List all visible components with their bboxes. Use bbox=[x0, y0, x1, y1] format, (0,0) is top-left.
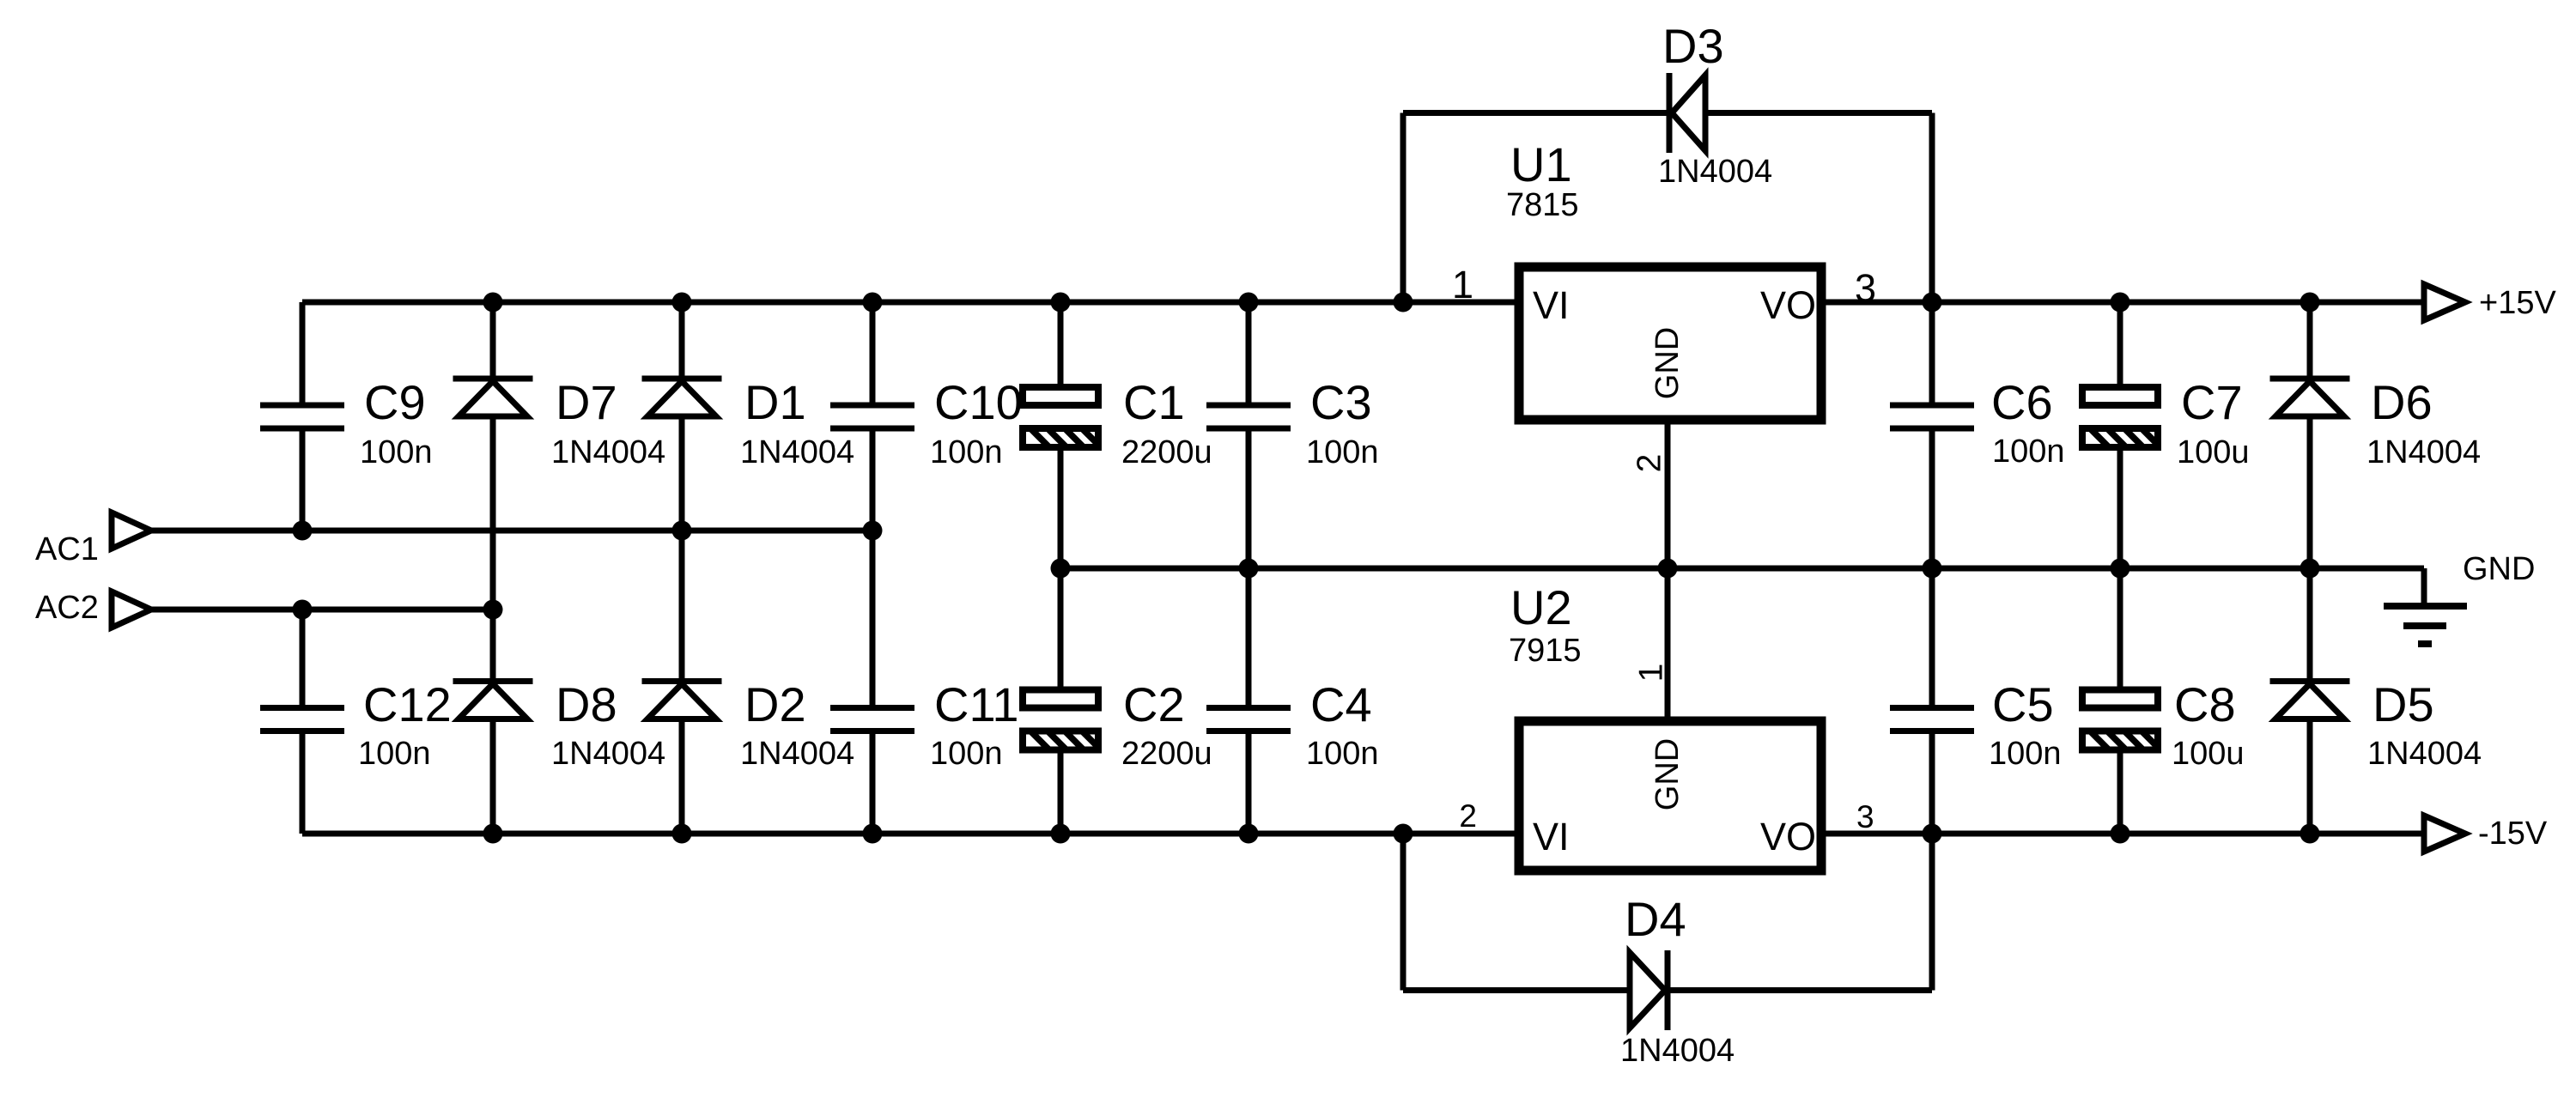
svg-text:D1: D1 bbox=[744, 375, 806, 429]
svg-text:1N4004: 1N4004 bbox=[551, 736, 665, 772]
diode D7 bbox=[453, 375, 666, 470]
svg-text:1N4004: 1N4004 bbox=[551, 434, 665, 470]
wire GND drop to earth symbol bbox=[2421, 568, 2427, 606]
svg-text:3: 3 bbox=[1856, 799, 1874, 834]
svg-text:C2: C2 bbox=[1123, 677, 1185, 731]
svg-text:1N4004: 1N4004 bbox=[740, 434, 854, 470]
svg-text:D4: D4 bbox=[1625, 892, 1686, 946]
wire column x=1454 (C3/C4 legs) bbox=[1246, 302, 1252, 834]
capacitor C5 bbox=[1890, 677, 2062, 772]
wire D4 bypass loop (U2 VI-VO) bbox=[1403, 834, 1932, 991]
diode D1 bbox=[642, 375, 855, 470]
svg-text:VO: VO bbox=[1760, 815, 1816, 858]
svg-text:C7: C7 bbox=[2181, 375, 2243, 429]
wire column x=1235 (C1/C2 legs) bbox=[1058, 302, 1064, 834]
capacitor C3 bbox=[1206, 375, 1379, 470]
svg-text:C10: C10 bbox=[934, 375, 1023, 429]
wire column x=2250 (C6/C5 legs) bbox=[1929, 302, 1935, 834]
wire column x=2690 (D6/D5 legs) bbox=[2307, 302, 2313, 834]
svg-text:100n: 100n bbox=[930, 736, 1003, 772]
svg-text:GND: GND bbox=[1649, 327, 1686, 399]
svg-text:C6: C6 bbox=[1991, 375, 2053, 429]
capacitor C2 (electrolytic) bbox=[1019, 677, 1212, 772]
capacitor C1 (electrolytic) bbox=[1019, 375, 1212, 470]
capacitor C4 bbox=[1206, 677, 1379, 772]
diode D6 bbox=[2270, 375, 2482, 470]
net -15V output flag bbox=[2424, 816, 2548, 852]
svg-text:1N4004: 1N4004 bbox=[2367, 736, 2482, 772]
connector AC1 input bbox=[35, 513, 151, 567]
svg-text:1N4004: 1N4004 bbox=[740, 736, 854, 772]
svg-text:C4: C4 bbox=[1310, 677, 1372, 731]
svg-text:1N4004: 1N4004 bbox=[2366, 434, 2481, 470]
svg-text:2200u: 2200u bbox=[1121, 434, 1212, 470]
svg-text:100n: 100n bbox=[1306, 434, 1379, 470]
svg-text:C11: C11 bbox=[934, 677, 1019, 731]
junctions on AC1 row bbox=[293, 521, 883, 541]
svg-text:C3: C3 bbox=[1310, 375, 1372, 429]
wire column x=2469 (C7/C8 legs) bbox=[2117, 302, 2123, 834]
net +15V output flag bbox=[2424, 284, 2556, 321]
svg-text:1N4004: 1N4004 bbox=[1658, 154, 1772, 190]
svg-text:C8: C8 bbox=[2174, 677, 2236, 731]
regulator U2 (7915) bbox=[1509, 580, 1821, 871]
svg-text:7815: 7815 bbox=[1506, 187, 1579, 223]
wire -15V bottom rail left segment bbox=[302, 831, 1519, 837]
capacitor C12 bbox=[260, 677, 452, 772]
svg-text:-15V: -15V bbox=[2478, 816, 2548, 852]
svg-text:D5: D5 bbox=[2372, 677, 2434, 731]
svg-text:100n: 100n bbox=[360, 434, 433, 470]
wire -15V bottom rail right segment bbox=[1821, 831, 2424, 837]
wire GND row bbox=[1060, 566, 2424, 572]
junctions on AC2 row bbox=[293, 600, 503, 620]
wire +15V top rail left segment bbox=[302, 300, 1519, 306]
svg-text:AC2: AC2 bbox=[35, 590, 99, 626]
wire D3 bypass loop (U1 VI-VO) bbox=[1403, 113, 1932, 303]
junctions on GND row bbox=[1051, 559, 2320, 579]
svg-text:100u: 100u bbox=[2177, 434, 2250, 470]
wire +15V top rail right segment bbox=[1821, 300, 2424, 306]
diode D3 bbox=[1658, 19, 1772, 190]
svg-text:2: 2 bbox=[1631, 454, 1668, 473]
ground (earth) symbol and GND net label bbox=[2384, 551, 2535, 644]
junctions on -15V rail bbox=[483, 824, 2320, 844]
svg-text:D7: D7 bbox=[556, 375, 617, 429]
svg-text:VI: VI bbox=[1533, 283, 1570, 327]
svg-text:AC1: AC1 bbox=[35, 531, 99, 567]
wire AC2 row bbox=[151, 607, 493, 613]
junctions on +15V rail bbox=[483, 293, 2320, 312]
wire AC1 row bbox=[151, 528, 872, 534]
svg-text:100n: 100n bbox=[930, 434, 1003, 470]
svg-text:2: 2 bbox=[1459, 798, 1477, 834]
svg-text:C12: C12 bbox=[363, 677, 452, 731]
U1 pin numbers 1 2 3 bbox=[1452, 263, 1876, 472]
capacitor C11 bbox=[830, 677, 1019, 772]
svg-text:100n: 100n bbox=[358, 736, 431, 772]
wire column x=352 (C9/C12 legs) bbox=[300, 302, 306, 834]
svg-text:1: 1 bbox=[1632, 664, 1669, 682]
svg-text:VO: VO bbox=[1760, 283, 1816, 327]
svg-text:1N4004: 1N4004 bbox=[1620, 1033, 1735, 1069]
capacitor C7 (electrolytic) bbox=[2079, 375, 2250, 470]
wire column x=1016 (C10/C11 legs) bbox=[870, 302, 876, 834]
wire U1 GND pin 2 to GND row bbox=[1665, 420, 1671, 568]
svg-text:D2: D2 bbox=[744, 677, 806, 731]
capacitor C10 bbox=[830, 375, 1023, 470]
capacitor C6 bbox=[1890, 375, 2065, 470]
diode D8 bbox=[453, 677, 666, 772]
svg-text:100u: 100u bbox=[2172, 736, 2245, 772]
wire column x=794 (D1/D2 legs) bbox=[679, 302, 685, 834]
svg-text:1: 1 bbox=[1452, 263, 1473, 306]
diode D2 bbox=[642, 677, 855, 772]
svg-text:C9: C9 bbox=[364, 375, 426, 429]
capacitor C8 (electrolytic) bbox=[2079, 677, 2245, 772]
svg-text:+15V: +15V bbox=[2479, 285, 2556, 321]
capacitor C9 bbox=[260, 375, 433, 470]
svg-text:C5: C5 bbox=[1992, 677, 2054, 731]
svg-text:C1: C1 bbox=[1123, 375, 1185, 429]
connector AC2 input bbox=[35, 590, 151, 628]
svg-text:7915: 7915 bbox=[1509, 633, 1582, 669]
diode D4 bbox=[1620, 892, 1735, 1069]
svg-text:GND: GND bbox=[1649, 738, 1686, 810]
svg-text:GND: GND bbox=[2463, 551, 2535, 587]
svg-text:100n: 100n bbox=[1989, 736, 2062, 772]
svg-text:D3: D3 bbox=[1662, 19, 1724, 73]
svg-text:D8: D8 bbox=[556, 677, 617, 731]
svg-text:U2: U2 bbox=[1510, 580, 1572, 634]
svg-text:D6: D6 bbox=[2371, 375, 2433, 429]
svg-text:100n: 100n bbox=[1306, 736, 1379, 772]
wire U2 GND pin 1 to GND row bbox=[1665, 568, 1671, 721]
svg-text:100n: 100n bbox=[1992, 434, 2065, 470]
U2 pin numbers 2 1 3 bbox=[1459, 664, 1874, 834]
diode D5 bbox=[2270, 677, 2482, 772]
svg-text:2200u: 2200u bbox=[1121, 736, 1212, 772]
svg-text:VI: VI bbox=[1533, 815, 1570, 858]
svg-text:3: 3 bbox=[1855, 266, 1876, 310]
regulator U1 (7815) bbox=[1506, 137, 1821, 420]
svg-text:U1: U1 bbox=[1510, 137, 1572, 191]
wire column x=574 (D7/D8 legs) bbox=[490, 302, 496, 834]
